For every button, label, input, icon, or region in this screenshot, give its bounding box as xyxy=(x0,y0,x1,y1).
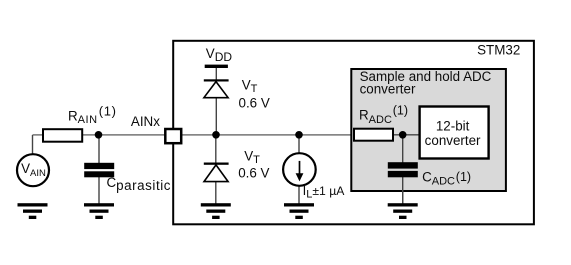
12-bit converter box xyxy=(420,107,489,159)
STM32 box xyxy=(173,41,534,225)
diode D1 to VDD xyxy=(204,79,229,97)
wire VAIN riser xyxy=(32,135,34,155)
resistor R_ADC xyxy=(354,129,393,141)
svg-text:AINx: AINx xyxy=(131,114,160,129)
svg-text:12-bit: 12-bit xyxy=(436,119,470,134)
svg-text:STM32: STM32 xyxy=(477,42,520,57)
wire RADC to 12-bit converter xyxy=(394,134,419,136)
wire CADC branch lower xyxy=(402,174,404,204)
ground under C_ADC xyxy=(388,203,418,219)
resistor R_AIN xyxy=(43,129,82,142)
svg-text:Cparasitic: Cparasitic xyxy=(107,175,171,193)
junction node at top/lower diodes xyxy=(212,131,220,139)
wire top diode branch xyxy=(215,66,217,135)
wire CADC branch inside gray box lower xyxy=(402,174,404,204)
junction node at CADC xyxy=(399,131,407,139)
wire current source branch xyxy=(298,135,300,204)
ground under V_AIN xyxy=(18,203,48,219)
wire lower diode branch xyxy=(215,135,217,204)
capacitor C_ADC xyxy=(388,162,418,177)
VDD power bar xyxy=(205,65,228,68)
junction node at Cparasitic xyxy=(95,131,103,139)
svg-text:converter: converter xyxy=(360,81,416,96)
sample-and-hold gray box xyxy=(351,69,506,191)
wire main horizontal xyxy=(33,134,420,136)
ground under diode D2 xyxy=(201,203,231,219)
capacitor C_parasitic xyxy=(84,163,114,178)
wire Cparasitic branch upper xyxy=(98,135,100,165)
wire CADC branch inside gray box upper xyxy=(402,135,404,165)
wire Cparasitic branch lower xyxy=(98,174,100,204)
junction node at current source xyxy=(295,131,303,139)
ground under current source xyxy=(284,203,314,219)
ground under C_parasitic xyxy=(84,203,114,219)
pin square AINx xyxy=(165,129,181,143)
wire CADC branch upper xyxy=(402,135,404,165)
svg-text:0.6 V: 0.6 V xyxy=(238,166,269,181)
svg-text:converter: converter xyxy=(425,133,481,148)
diode D2 to VSS xyxy=(204,163,229,182)
svg-text:0.6 V: 0.6 V xyxy=(239,95,270,110)
current source I_L xyxy=(283,153,316,186)
voltage source V_AIN xyxy=(17,154,49,186)
